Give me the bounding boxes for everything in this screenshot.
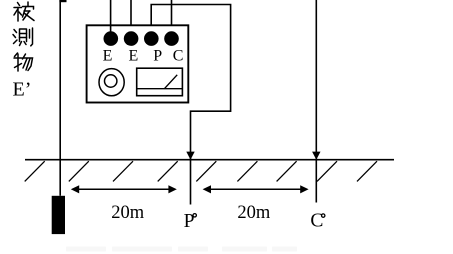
ground hatch 4	[158, 161, 178, 181]
svg-text:P: P	[153, 47, 162, 64]
ground hatch 1	[25, 161, 45, 181]
wire: earth lead vertical to buried electrode	[59, 0, 61, 196]
svg-text:C: C	[310, 211, 323, 232]
ground surface line	[25, 159, 394, 161]
meter display frame	[137, 68, 183, 96]
ground hatch 2	[69, 161, 89, 181]
measured object label 被 (hand-drawn glyph)	[14, 2, 34, 21]
earth tester instrument box	[87, 25, 189, 102]
dial knob outer ring	[99, 69, 124, 96]
buried electrode E' (black bar)	[52, 196, 65, 234]
terminal stem E1	[110, 25, 112, 32]
arrowhead down at P'	[186, 152, 194, 160]
wire: P terminal lead up and over to P' electrode	[151, 5, 230, 205]
ground hatch 3	[113, 161, 133, 181]
svg-text:20m: 20m	[237, 203, 271, 223]
meter scale base line	[137, 88, 182, 90]
faint ghost caption at bottom	[66, 247, 297, 252]
svg-text:E’: E’	[13, 79, 32, 101]
meter needle	[164, 75, 177, 89]
wire tick at top of earth lead	[59, 0, 66, 2]
wire: E2 terminal lead from top	[130, 0, 132, 32]
ground hatch 6	[237, 161, 257, 181]
terminal dot P	[144, 31, 159, 46]
dial knob inner circle	[105, 75, 117, 87]
svg-text:20m: 20m	[111, 203, 145, 223]
dimension arrow P' to C' (20m)	[210, 188, 302, 190]
ground hatch 5	[196, 161, 216, 181]
wire: E1 terminal lead from top	[110, 0, 112, 32]
svg-text:C: C	[173, 47, 184, 64]
wire: C terminal lead from top	[171, 0, 173, 32]
measured object label 测 (hand-drawn glyph)	[13, 28, 33, 46]
ground hatch 8	[317, 161, 337, 181]
ground hatch 9	[357, 161, 377, 181]
terminal dot E2	[124, 31, 139, 46]
svg-text:E: E	[129, 47, 139, 64]
dimension arrow E' to P' (20m)	[78, 188, 170, 190]
wire: C' electrode lead from top	[315, 0, 317, 203]
arrowhead down at C'	[312, 152, 320, 160]
measured object label 物 (hand-drawn glyph)	[14, 53, 33, 71]
ground hatch 7	[277, 161, 297, 181]
terminal dot C	[164, 31, 179, 46]
svg-text:E: E	[103, 47, 113, 64]
terminal dot E1	[104, 31, 119, 46]
